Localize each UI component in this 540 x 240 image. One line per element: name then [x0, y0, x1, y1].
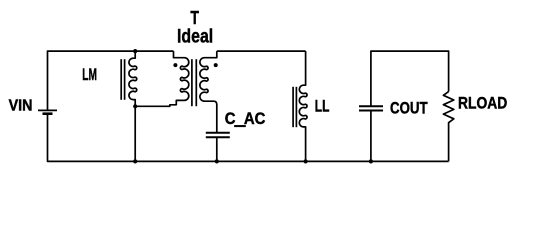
- svg-text:C_AC: C_AC: [225, 109, 266, 128]
- svg-text:RLOAD: RLOAD: [458, 93, 507, 112]
- svg-text:Ideal: Ideal: [177, 26, 213, 48]
- svg-text:VIN: VIN: [9, 97, 33, 114]
- svg-text:LM: LM: [82, 66, 97, 84]
- svg-text:LL: LL: [315, 97, 330, 116]
- svg-text:COUT: COUT: [390, 98, 428, 117]
